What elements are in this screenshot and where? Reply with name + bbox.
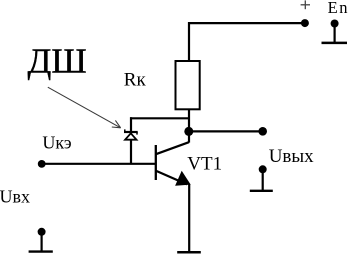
annotation arrow from ДШ to diode VD1 <box>48 87 121 128</box>
transistor VT1 base bar <box>155 145 157 180</box>
resistor Rк body <box>176 61 200 109</box>
node: Uкэ terminal dot <box>38 160 46 168</box>
transistor VT1 emitter arrow <box>175 171 191 186</box>
plus sign <box>301 0 310 9</box>
svg-text:Uкэ: Uкэ <box>42 132 72 152</box>
svg-text:Uвых: Uвых <box>269 146 314 167</box>
wire: diode vertical lead <box>130 117 132 164</box>
node: Uвых upper terminal dot <box>258 127 267 136</box>
wire: resistor top to +En rail <box>189 23 305 60</box>
svg-text:ДШ: ДШ <box>28 42 87 81</box>
transistor VT1 base wire from Uкэ terminal <box>42 163 155 165</box>
node: collector junction dot <box>184 127 193 136</box>
terminal Еп: dot, stem and bar <box>322 20 348 43</box>
wire: emitter to ground bar <box>188 184 190 251</box>
wire: resistor bottom to collector node <box>188 109 190 143</box>
node: + supply terminal dot <box>301 19 309 27</box>
svg-text:E: E <box>328 0 338 17</box>
transistor VT1 collector lead <box>156 142 189 154</box>
svg-text:n: n <box>339 0 347 17</box>
svg-text:Rк: Rк <box>124 70 147 91</box>
diode VD (Schottky) cathode bar with hooks <box>124 129 138 134</box>
terminal Uвх: dot, stem and bar <box>29 228 53 252</box>
svg-text:VT1: VT1 <box>187 154 222 175</box>
svg-text:Uвх: Uвх <box>0 186 30 206</box>
wire: collector node to Uвых terminal <box>189 130 263 132</box>
terminal Uвых: dot, stem and bar <box>250 165 273 191</box>
transistor VT1 emitter lead <box>156 171 187 185</box>
diode VD (Schottky) triangle (anode, pointing up) <box>125 133 136 139</box>
ground bar (common) <box>177 251 201 254</box>
wire: diode top to collector rail <box>130 117 189 119</box>
